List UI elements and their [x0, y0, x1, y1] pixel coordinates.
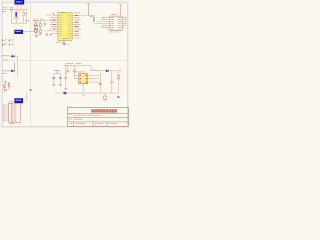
title block column lines — [74, 122, 108, 127]
label GND right-bottom of U1 — [75, 34, 78, 36]
label D-chain — [33, 20, 39, 22]
sheet outer border frame — [1, 1, 129, 128]
resistor R4 pullup — [93, 18, 95, 21]
label pin1 mark — [61, 12, 65, 14]
capacitor C12 — [44, 23, 46, 24]
capacitor C6 — [73, 70, 76, 71]
diode D6 (navy) — [106, 70, 109, 73]
wire right vertical to J3 — [17, 56, 19, 77]
wire AC bottom rail — [12, 22, 27, 24]
resistor R5 — [118, 75, 120, 78]
connector U3 body — [110, 16, 122, 30]
connector J3 (blue box) — [14, 98, 23, 103]
label C8 plus — [82, 94, 85, 96]
connector U3 left pins — [108, 18, 110, 30]
wire J2 to chain — [23, 29, 34, 31]
title block outline — [68, 107, 128, 126]
wire CX1 leads — [15, 10, 17, 24]
wire U2 gnd pin — [82, 84, 84, 93]
net labels U1 right — [75, 15, 81, 38]
wire cluster verticals — [36, 21, 45, 30]
wire split — [54, 74, 61, 77]
varistor RV1 — [23, 12, 25, 15]
label CX1 value — [14, 17, 19, 19]
opto U4 — [104, 96, 107, 99]
wire RV1 leads — [23, 10, 25, 24]
wire J3 up — [26, 92, 28, 101]
label input rail text — [66, 63, 81, 65]
wire VIN rail — [64, 65, 92, 67]
label D-chain left part — [25, 20, 29, 22]
wire connector pins down — [18, 5, 22, 10]
ground chain — [34, 36, 38, 38]
wire C7 bottom — [111, 83, 113, 93]
power flag VCC (bottom-left LED cluster) — [4, 82, 7, 85]
inductor L1 — [2, 54, 9, 57]
capacitor C7 branch — [111, 71, 113, 82]
title block row3 text — [69, 118, 83, 120]
net label blue bottom — [68, 106, 72, 108]
wire AC live rail — [2, 9, 27, 11]
wire pullup rail — [86, 14, 94, 16]
resistor R5 branch — [118, 71, 120, 75]
label U1 designator — [56, 41, 63, 43]
label VCC3.3 — [46, 14, 51, 16]
section divider vertical — [30, 2, 32, 126]
sheet background — [0, 0, 130, 130]
regulator U2 pin pads — [80, 75, 88, 83]
ground U1 (dark) — [63, 41, 66, 46]
label S1 — [11, 39, 14, 41]
label U2 designator — [74, 71, 85, 73]
wire chain bottom — [35, 29, 37, 36]
wire AC right leg — [26, 10, 28, 24]
label L/N — [18, 10, 21, 12]
diode D2 (navy) — [12, 55, 15, 58]
net label VOUT (blue) — [92, 69, 98, 71]
wire SW node up — [91, 66, 106, 71]
label 275V — [25, 13, 27, 15]
wire D2 out — [15, 55, 18, 57]
title block TITLE row text — [69, 114, 72, 116]
capacitor C7 — [110, 82, 113, 83]
wire L1 to D2 — [9, 55, 11, 57]
wire cluster bottoms — [36, 32, 41, 33]
connector CON9 body — [9, 103, 21, 122]
capacitor C9 plus marks — [46, 33, 52, 35]
connector J1 AC input (blue box) — [15, 0, 25, 5]
connector U3 right pins — [122, 18, 125, 28]
resistor R1 — [35, 29, 38, 32]
wire VOUT rail — [109, 70, 122, 72]
label L1 — [3, 59, 8, 61]
wire IO0 row — [45, 30, 56, 32]
ground LED cluster — [3, 90, 7, 92]
capacitor CX1 (film, navy) — [15, 12, 17, 17]
capacitor C10 electrolytic branch — [67, 66, 69, 71]
capacitor C11 — [35, 23, 37, 26]
label CON9 designator — [9, 123, 15, 125]
wire VCC3.3 to pin — [53, 14, 55, 16]
label F1 — [10, 6, 15, 8]
label C12 — [40, 18, 44, 20]
module U1 right pins — [72, 15, 75, 38]
wire chain top — [35, 22, 37, 26]
label left tiny — [82, 15, 84, 17]
ground C3 — [59, 84, 62, 86]
resistor R2 — [39, 24, 41, 27]
label CN1 — [3, 7, 8, 9]
ground C5 — [64, 89, 67, 91]
net labels U1 left — [50, 18, 55, 34]
label U3 designator — [111, 13, 117, 15]
label ANT above right rows — [75, 12, 80, 14]
wire ground rail bottom — [55, 92, 119, 94]
wire R4 leads — [93, 15, 95, 23]
capacitor C4 (navy) — [63, 92, 66, 94]
fuse F1 — [11, 9, 13, 11]
ground C2 — [52, 84, 55, 86]
connector CON9 pin column line — [11, 103, 13, 122]
label C11 — [33, 18, 36, 20]
power flag VCC decoupling — [87, 4, 90, 15]
connector J2 power out (blue box) — [14, 30, 23, 34]
sheet inner border frame — [2, 2, 127, 126]
key switch S1 — [3, 39, 10, 42]
title block company name (chinese) — [91, 109, 116, 112]
module U1 ESP32 body — [58, 12, 72, 40]
wire C5 bottom — [65, 79, 67, 89]
power flag VCC U3 — [119, 5, 122, 16]
diode D1 — [34, 25, 38, 28]
label S2 — [11, 43, 14, 45]
module U1 internal pin names — [59, 15, 71, 38]
regulator U2 body — [79, 74, 88, 84]
resistor R6 — [35, 30, 37, 33]
label CON9 header — [9, 101, 13, 103]
connector CON9 pins and net labels — [3, 105, 17, 121]
connector U3 internal text — [111, 18, 122, 30]
node blue tag on divider — [30, 89, 32, 90]
wire cap C6 branch — [73, 66, 75, 70]
power mid caps: flag VCC — [54, 70, 60, 73]
regulator U2 pins — [78, 75, 89, 82]
title block row lines — [68, 113, 128, 122]
net label blue right — [117, 96, 119, 98]
section divider horizontal — [2, 60, 127, 62]
LED D5 — [8, 82, 10, 89]
resistor R7 — [40, 30, 42, 33]
label AC value — [2, 11, 6, 13]
ground XTAL — [38, 34, 41, 36]
diode D3 (navy) — [11, 70, 14, 73]
module U1 left pins — [56, 15, 58, 33]
wire I2C SCL — [96, 23, 110, 25]
capacitor C3 — [59, 77, 62, 78]
label U3 part number — [110, 31, 119, 33]
label FB — [3, 72, 8, 74]
title block row4 text — [70, 123, 119, 125]
wire U2 out rows — [89, 71, 100, 93]
LED D4 — [3, 85, 5, 90]
wire input cap branch — [65, 66, 67, 78]
wire R5 bottom — [118, 78, 120, 92]
wire C6 to IC — [74, 71, 78, 79]
power flag VCC3.3 at U1 — [52, 13, 55, 15]
wire opto — [104, 93, 106, 102]
net labels U3 left — [102, 18, 107, 28]
wire cap bottoms — [54, 79, 61, 84]
capacitor C5 — [64, 78, 67, 79]
net labels U3 right — [125, 18, 127, 26]
wire feedback loop — [2, 62, 14, 71]
capacitor C2 — [52, 77, 55, 78]
capacitor C8 — [99, 83, 102, 84]
key switch S2 — [3, 43, 10, 46]
wire I2C SDA — [96, 21, 110, 23]
wire XTAL bus — [34, 20, 56, 22]
wire left branch down — [11, 11, 13, 24]
label R4 value — [90, 16, 94, 18]
